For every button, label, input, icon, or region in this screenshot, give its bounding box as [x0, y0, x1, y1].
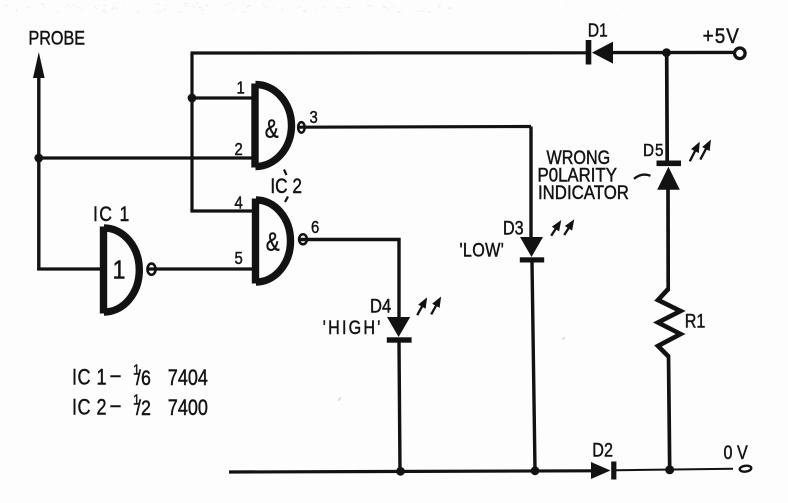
LED D4 [387, 317, 412, 343]
svg-text:D3: D3 [503, 217, 524, 239]
svg-text:IC 1: IC 1 [72, 366, 107, 390]
NAND gate IC2a body [255, 84, 292, 168]
LED D3 [520, 237, 544, 263]
svg-text:INDICATOR: INDICATOR [538, 182, 629, 203]
wire bottom rail [229, 471, 592, 472]
note IC2 type [72, 391, 208, 420]
svg-text:/6: /6 [136, 367, 151, 391]
light arrows D4 [417, 299, 439, 315]
wire D4 to bottom rail [399, 343, 400, 472]
light arrows D3 [551, 222, 572, 236]
wire vertical bus to pins 1 and 4 [190, 53, 193, 211]
junction R1 bottom [665, 465, 674, 474]
svg-text:'HIGH': 'HIGH' [323, 317, 383, 339]
LED D5 [657, 161, 682, 190]
svg-text:7404: 7404 [168, 366, 208, 390]
wire top rail right of D1 [613, 51, 734, 55]
svg-text:6: 6 [311, 218, 319, 237]
svg-text:D1: D1 [588, 19, 608, 41]
svg-text:5: 5 [235, 249, 243, 268]
stray tick above IC2 [284, 170, 287, 176]
wire output 3 [297, 125, 531, 129]
wire D5 to R1 [666, 188, 670, 291]
svg-text:IC 2: IC 2 [270, 174, 302, 198]
svg-text:D4: D4 [370, 295, 391, 317]
wire pin 4 [192, 210, 253, 212]
svg-text:2: 2 [235, 140, 243, 159]
svg-text:1: 1 [113, 256, 126, 284]
probe terminal arrow [33, 52, 45, 158]
terminal 0V [739, 465, 751, 472]
wire D2 to 0V [616, 469, 733, 470]
output bubble IC2b [299, 234, 307, 244]
wire D5 branch upper [665, 53, 669, 161]
svg-text:IC 2: IC 2 [72, 396, 107, 420]
terminal +5V [735, 48, 746, 59]
annotation pointer dash [634, 175, 651, 179]
wire top rail left of D1 [191, 51, 587, 54]
junction pin1 bus [188, 94, 197, 103]
svg-text:+5V: +5V [703, 25, 740, 48]
junction top rail D5 branch [662, 48, 671, 57]
wire output 3 down to D3 [529, 127, 532, 239]
output bubble IC1 [147, 264, 155, 275]
svg-text:7400: 7400 [168, 396, 208, 420]
junction D4 bottom [396, 467, 405, 476]
diode D2 [591, 462, 616, 480]
svg-text:–: – [111, 393, 122, 417]
svg-text:4: 4 [235, 194, 243, 213]
svg-text:&: & [265, 114, 279, 143]
wire IC1 input [37, 267, 101, 270]
svg-text:0 V: 0 V [724, 442, 748, 464]
svg-text:/2: /2 [136, 397, 151, 421]
resistor R1 [658, 289, 681, 357]
wire IC1 output to pin 5 [147, 267, 253, 270]
svg-text:IC 1: IC 1 [93, 202, 131, 226]
wire probe to pin 2 [39, 156, 252, 159]
svg-text:D5: D5 [643, 140, 665, 160]
junction D3 bottom [531, 466, 540, 475]
diode D1 [586, 40, 613, 65]
NAND gate IC2b body [256, 199, 291, 284]
svg-text:1: 1 [237, 78, 245, 97]
wire R1 to bottom rail [669, 355, 670, 470]
note IC1 type [72, 361, 208, 390]
svg-text:D2: D2 [592, 439, 613, 461]
svg-text:R1: R1 [685, 310, 706, 332]
stray tick below IC2 [285, 197, 288, 203]
wire D3 to bottom rail [532, 262, 535, 470]
wire pin 1 [192, 96, 252, 99]
svg-text:–: – [111, 363, 122, 387]
svg-text:&: & [266, 227, 280, 256]
svg-text:3: 3 [310, 108, 318, 127]
inverter IC1 body [104, 227, 140, 314]
wire probe vertical lower [37, 158, 40, 271]
svg-text:PROBE: PROBE [29, 27, 86, 49]
output bubble IC2a [298, 122, 305, 133]
junction probe node [34, 154, 43, 163]
svg-text:'LOW': 'LOW' [460, 239, 505, 261]
wire output 6 [298, 240, 399, 319]
light arrows D5 [690, 142, 710, 161]
label WRONG POLARITY INDICATOR [538, 147, 629, 204]
